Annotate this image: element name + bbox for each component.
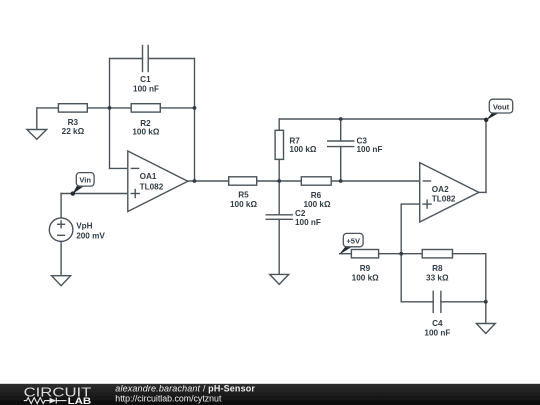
wire R9 left lead	[340, 253, 352, 255]
node junction R9/R8/OA2+	[399, 252, 403, 256]
wire feedback loop right vertical	[194, 59, 196, 182]
svg-text:http://circuitlab.com/cytznut: http://circuitlab.com/cytznut	[115, 394, 222, 404]
wire VpH bottom lead	[60, 242, 62, 276]
wire C3 top lead	[340, 119, 342, 141]
svg-text:OA2: OA2	[432, 185, 449, 194]
wire R8 to C4 node	[485, 254, 487, 302]
wire R3 right lead	[87, 107, 109, 109]
ground (C2)	[270, 274, 289, 284]
svg-text:100 kΩ: 100 kΩ	[289, 145, 316, 154]
svg-text:C1: C1	[140, 75, 151, 84]
svg-text:C2: C2	[295, 209, 306, 218]
svg-text:LAB: LAB	[68, 396, 92, 405]
wire C2 ground lead	[278, 219, 280, 274]
wire R7 bottom lead	[278, 159, 280, 181]
wire feedback loop top-left segment	[110, 58, 143, 60]
svg-text:+5V: +5V	[346, 236, 361, 245]
svg-text:TL082: TL082	[140, 182, 164, 191]
svg-text:100 nF: 100 nF	[133, 85, 159, 94]
CircuitLab logo resistor zigzag	[24, 398, 50, 404]
ground (R3)	[27, 130, 47, 140]
resistor R7	[275, 130, 283, 159]
wire feedback loop top-right segment	[148, 58, 194, 60]
svg-text:100 nF: 100 nF	[295, 218, 321, 227]
wire OA2 output	[479, 191, 486, 193]
svg-text:R3: R3	[68, 118, 79, 127]
svg-text:Vin: Vin	[79, 176, 91, 185]
wire Vout vertical	[485, 119, 487, 192]
wire R2 right lead	[160, 107, 194, 109]
node Vin flag	[71, 173, 95, 196]
wire R7 top lead	[278, 119, 280, 130]
resistor R9	[351, 250, 378, 258]
node junction R8/C4/ground	[484, 300, 488, 304]
svg-text:C4: C4	[432, 319, 443, 328]
wire C4 right lead	[441, 301, 486, 303]
svg-text:alexandre.barachant / pH-Senso: alexandre.barachant / pH-Sensor	[115, 384, 255, 394]
CircuitLab logo diode	[50, 398, 67, 404]
wire OA1 inverting input	[110, 167, 128, 169]
node junction center (R5/R6/R7/C2)	[277, 179, 281, 183]
node junction R2/R3/loop	[108, 106, 112, 110]
capacitor C2	[266, 215, 292, 220]
wire feedback loop left vertical	[109, 59, 111, 169]
ground (VpH)	[52, 276, 71, 286]
node +5V flag	[339, 233, 363, 254]
op-amp OA2	[420, 163, 479, 222]
node junction top rail / C3	[339, 117, 343, 121]
wire R8 right lead	[453, 253, 486, 255]
resistor R2	[131, 104, 160, 112]
wire C4 left branch	[401, 254, 433, 302]
node junction OA1 output	[193, 179, 197, 183]
svg-text:R8: R8	[432, 264, 443, 273]
svg-text:R2: R2	[140, 119, 151, 128]
node junction R2/loop right	[193, 106, 197, 110]
svg-text:33 kΩ: 33 kΩ	[426, 273, 449, 282]
wire OA2 non-inverting input	[401, 204, 420, 254]
svg-text:100 kΩ: 100 kΩ	[230, 200, 257, 209]
voltage source VpH top lead	[60, 194, 62, 218]
wire R9 right lead	[379, 253, 402, 255]
svg-text:R5: R5	[238, 191, 249, 200]
svg-text:TL082: TL082	[432, 195, 456, 204]
node junction C3 / R6	[339, 179, 343, 183]
node Vout flag	[484, 99, 513, 122]
svg-text:100 nF: 100 nF	[357, 145, 383, 154]
svg-text:200 mV: 200 mV	[76, 232, 105, 241]
wire R6 left lead	[279, 180, 301, 182]
wire center node to C2	[278, 181, 280, 215]
voltage source VpH	[49, 218, 73, 242]
capacitor C4	[433, 291, 441, 312]
svg-text:Vout: Vout	[493, 102, 510, 111]
wire top feedback rail	[279, 118, 486, 120]
wire R8 left lead	[401, 253, 422, 255]
capacitor C1	[143, 46, 149, 72]
svg-text:100 kΩ: 100 kΩ	[132, 128, 159, 137]
wire R5 right lead	[257, 180, 280, 182]
svg-text:100 nF: 100 nF	[424, 328, 450, 337]
wire R2 left lead	[110, 107, 132, 109]
resistor R6	[301, 177, 331, 185]
op-amp OA1	[128, 151, 188, 212]
wire ground lead (C4 node)	[485, 302, 487, 324]
svg-text:R6: R6	[311, 191, 322, 200]
capacitor C3	[328, 141, 354, 147]
svg-text:100 kΩ: 100 kΩ	[352, 274, 379, 283]
wire R3 ground lead	[37, 108, 59, 130]
resistor R3	[58, 104, 87, 112]
svg-text:R9: R9	[360, 264, 371, 273]
svg-text:VpH: VpH	[76, 221, 92, 230]
wire R6 to OA2 inverting input	[331, 180, 420, 182]
wire C3 bottom lead	[340, 147, 342, 181]
resistor R8	[422, 250, 452, 258]
wire OA1 non-inverting input	[61, 193, 128, 195]
svg-text:22 kΩ: 22 kΩ	[62, 127, 85, 136]
ground (C4 node)	[476, 324, 495, 334]
wire OA1 output	[188, 180, 229, 182]
resistor R5	[229, 177, 257, 185]
svg-text:100 kΩ: 100 kΩ	[303, 200, 330, 209]
svg-text:OA1: OA1	[140, 172, 157, 181]
